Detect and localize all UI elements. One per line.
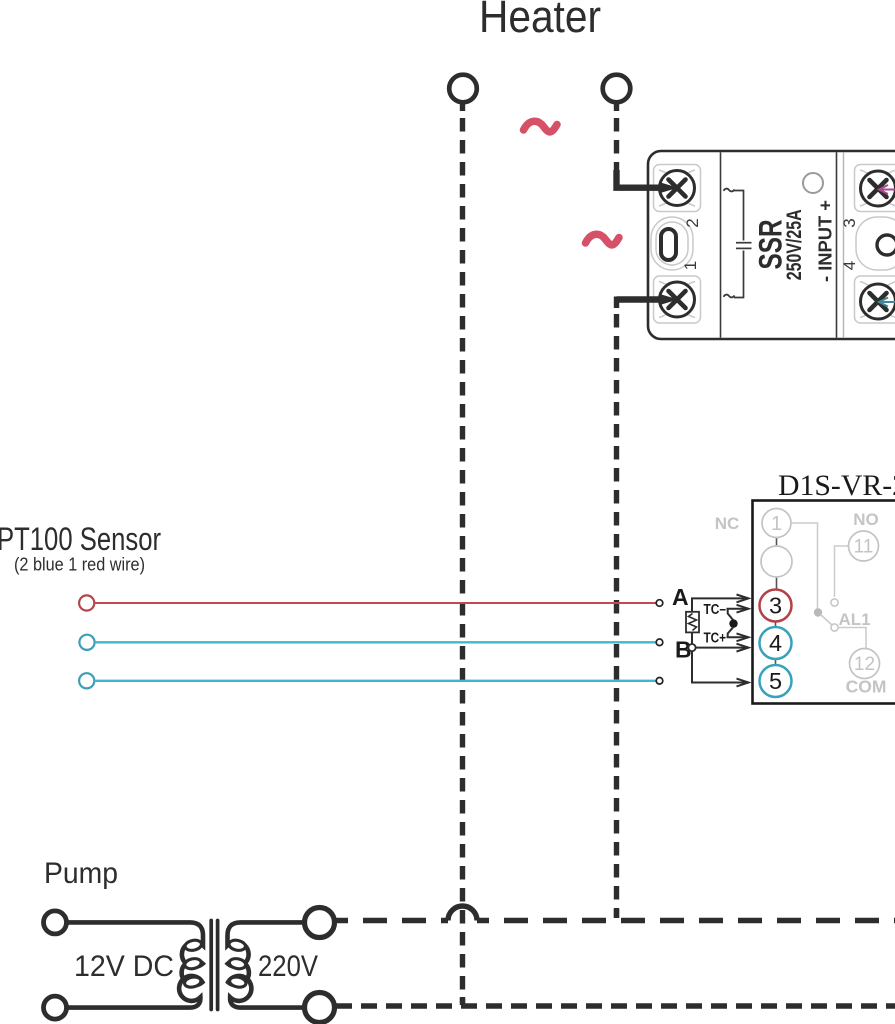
controller terminal 1 [762,509,791,538]
wire: SSR terminal 1 down to pump bus [614,297,619,919]
relay common wire from terminal 1 [791,523,818,610]
wire: teal input - into terminal 4 [879,298,895,307]
wire AL1 contact to terminal 12 [838,628,866,649]
wire: bottom mains bus dashed [336,1003,895,1008]
svg-text:- INPUT +: - INPUT + [815,200,836,282]
SSR terminal 4 screw [861,284,895,319]
SSR internal output symbol [734,191,752,298]
SSR terminal 4 decor square [855,276,895,323]
resistor RTD element [686,612,699,633]
wire: PT100 red lead [95,602,657,604]
arrow tip into SSR terminal 2 [659,182,678,193]
junction stub: right riser meets top bus [614,909,619,918]
svg-text:1: 1 [771,513,782,535]
controller terminal 4 [760,627,792,659]
SSR left mounting slot decor [651,217,693,270]
red AC tilde lower [586,234,620,245]
wire: junction dot to TC+ [728,627,734,638]
svg-text:Heater: Heater [479,0,601,42]
svg-text:220V: 220V [258,950,318,983]
SSR terminal 1 screw [660,282,695,317]
SSR U1 body [648,151,895,339]
heater terminal right [603,75,631,103]
svg-text:250V/25A: 250V/25A [782,209,806,280]
PT100 blue lead 2 terminal [79,673,94,688]
svg-text:12: 12 [854,654,875,675]
svg-text:NC: NC [715,514,740,533]
relay NO contact [831,599,838,606]
svg-text:COM: COM [846,677,887,697]
SSR internal tilde top [724,189,735,192]
wire: top mains bus dashed with hop [336,906,895,921]
svg-text:2: 2 [683,218,702,227]
SSR terminal 2 screw [660,171,695,206]
wire: SSR terminal 1 out to left [617,296,663,302]
svg-text:3: 3 [769,593,782,619]
SSR left mounting slot [661,229,676,260]
node red lead right end [656,600,663,607]
transformer T1 secondary winding [228,922,305,1007]
SSR panel divider lines [721,152,844,337]
SSR internal tilde bottom [724,295,735,298]
svg-text:NO: NO [853,510,879,529]
pump terminal top [44,911,67,934]
relay pivot dot [814,608,822,616]
svg-text:TC–: TC– [704,602,727,618]
svg-text:4: 4 [840,261,859,270]
wire from contact 11 [835,546,849,597]
svg-text:Pump: Pump [44,857,118,890]
svg-text:4: 4 [769,630,782,656]
controller U2 box [753,501,895,704]
heater terminal left [449,75,477,103]
wire: PT100 blue lead 1 [95,641,656,643]
svg-text:3: 3 [840,218,859,227]
transformer T1 secondary coil crossings [228,939,247,989]
svg-text:1: 1 [681,261,700,270]
controller terminal 3 [760,590,792,622]
controller terminal 12 [850,649,880,679]
svg-text:(2 blue 1 red wire): (2 blue 1 red wire) [14,555,145,575]
svg-text:11: 11 [854,537,874,558]
arrow tip into SSR terminal 1 [659,294,678,305]
wire: TC- to junction dot [728,609,734,621]
TC junction dot [729,619,737,627]
mains terminal top [305,908,335,938]
relay blade [821,615,833,626]
svg-text:D1S-VR-2: D1S-VR-2 [778,469,895,502]
junction stub: left riser meets bottom bus [460,997,465,1003]
mains terminal bottom [305,993,335,1023]
SSR right mounting hole [877,235,895,255]
SSR right mounting slot decor [856,217,895,270]
svg-text:5: 5 [769,668,782,694]
wire: resistor to node B [691,632,693,644]
SSR terminal 1 decor square [654,276,701,323]
controller terminal 2 (blank) [761,546,792,577]
node B junction circle [688,644,695,651]
controller internal link lines [776,538,777,666]
node blue lead 1 right end [656,639,663,646]
wire: magenta input + into terminal 3 [879,185,895,194]
wire: TC- to terminal 3 with arrow [727,605,749,613]
relay AL1 contact [831,624,838,631]
svg-text:AL1: AL1 [838,610,870,629]
wire: B to terminal 4 with arrow [696,644,749,652]
wire: PT100 blue lead 2 [95,680,657,682]
SSR terminal 2 decor square [654,165,701,212]
SSR terminal 3 decor square [855,165,895,212]
svg-text:TC+: TC+ [704,630,727,646]
PT100 blue lead 1 terminal [79,635,94,650]
SSR terminal 3 screw [861,171,895,206]
wire: heater left vertical dashed [460,102,465,1005]
controller terminal 5 [760,665,792,697]
wire: A to terminal 3 with arrow [692,595,749,612]
SSR LED indicator [803,173,823,193]
svg-text:A: A [672,584,689,610]
controller terminal 11 [849,531,879,561]
red AC tilde top [524,121,558,132]
svg-text:PT100 Sensor: PT100 Sensor [0,521,161,557]
PT100 red lead terminal [79,595,94,610]
wire: TC+ to terminal 4 with arrow [727,633,749,641]
transformer T1 core [211,921,217,1010]
wire: heater right vertical dashed [614,102,619,172]
wire: B down to terminal 5 with arrow [692,651,749,686]
pump terminal bottom [44,996,67,1019]
wire: heater right into SSR terminal 2 [617,170,663,188]
node blue lead 2 right end [656,678,663,685]
transformer T1 primary coil crossings [184,939,203,989]
transformer T1 primary winding [67,922,203,1007]
svg-text:12V DC: 12V DC [74,950,174,983]
